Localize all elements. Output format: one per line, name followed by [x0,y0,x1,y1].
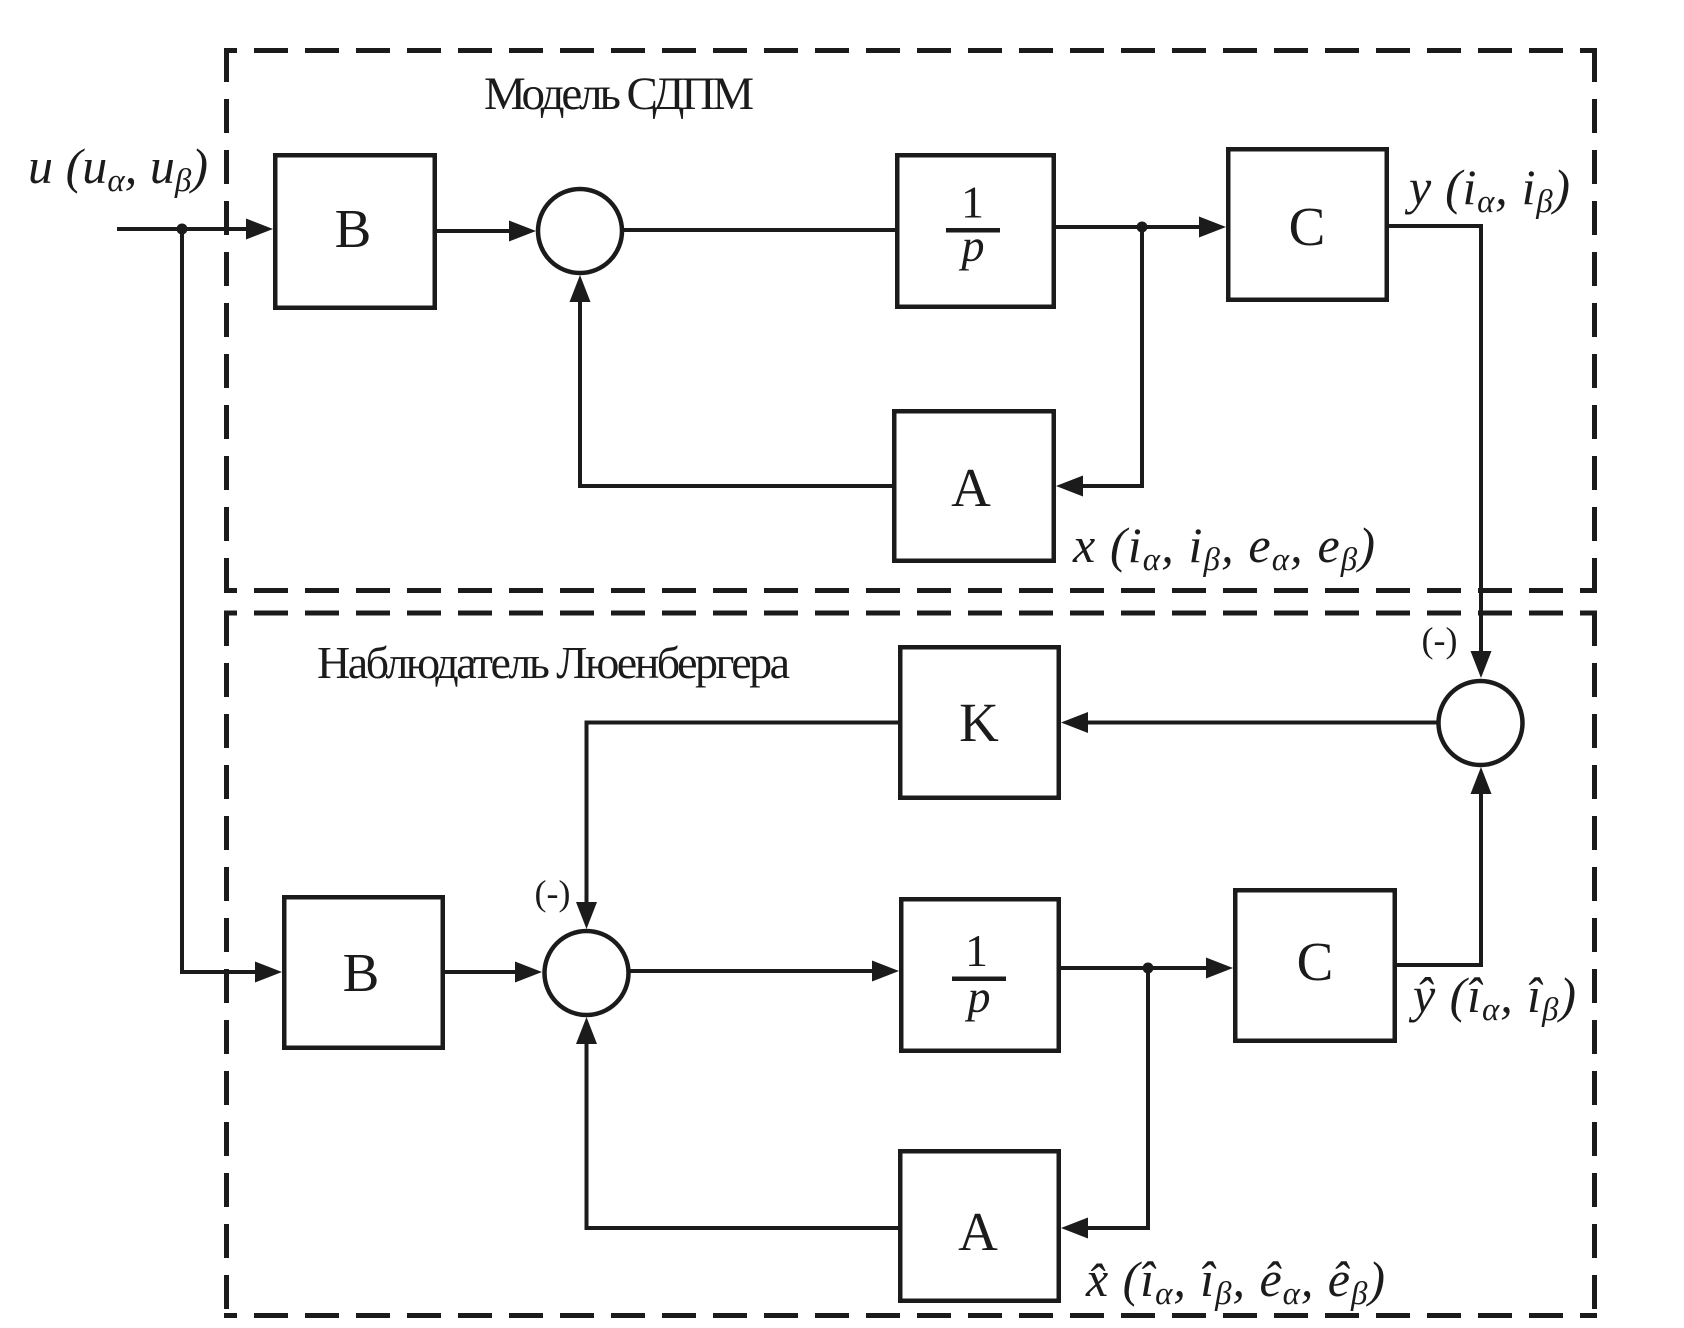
block C2 [1235,890,1395,1041]
svg-text:(-): (-) [535,873,571,913]
wire: K output to S2 top [576,723,898,930]
svg-text:(-): (-) [1422,620,1458,660]
wire: A2 output to S2 bottom [576,1017,898,1228]
wire: C2 output up to S3 bottom [1397,767,1492,965]
node: state x junction [1137,222,1148,233]
svg-text:K: K [959,692,999,753]
svg-text:A: A [951,457,991,518]
block C1 [1228,149,1387,300]
summing junction S1 [538,189,622,273]
svg-text:C: C [1289,196,1326,257]
wire: P2 to C2 [1061,958,1233,979]
wire: S3 to K [1061,712,1439,733]
node: input branch junction [177,224,188,235]
svg-text:A: A [958,1201,998,1262]
node: state x-hat junction [1143,963,1154,974]
svg-text:1: 1 [965,925,988,976]
wire: input branch horizontal into B2 [182,962,282,983]
svg-text:B: B [335,198,372,259]
svg-text:Модель СДПМ: Модель СДПМ [484,68,754,120]
wire: node x down and into A1 [1056,227,1142,497]
wire: B2 to summing junction S2 [445,962,542,983]
wire: A1 output to S1 bottom [570,275,893,486]
svg-text:C: C [1297,931,1334,992]
svg-text:p: p [959,220,985,271]
svg-text:x (iα, iβ, eα, eβ): x (iα, iβ, eα, eβ) [1072,517,1375,578]
dashed box: Модель СДПМ [224,48,1597,591]
block P1: integrator 1/p [897,155,1054,307]
wire: input horizontal into B1 [117,219,273,240]
block B1 [275,155,435,308]
wire: S2 to 1/p block P2 [629,961,900,982]
block K [900,647,1059,798]
svg-text:Наблюдатель Люенбергера: Наблюдатель Люенбергера [317,637,790,688]
svg-text:B: B [343,942,380,1003]
block A2 [900,1151,1059,1301]
summing junction S2 [545,931,629,1015]
wire: input branch vertical down [180,229,184,974]
block A1 [894,411,1054,561]
wire: S1 to 1/p block P1 [622,228,895,232]
block P2: integrator 1/p [901,899,1059,1051]
svg-text:p: p [965,971,991,1022]
summing junction S3 [1439,681,1523,765]
dashed box: Наблюдатель Люенбергера [224,612,1597,1318]
wire: B1 to summing junction S1 [437,221,536,242]
svg-text:x̂ (îα, îβ, êα, êβ): x̂ (îα, îβ, êα, êβ) [1085,1251,1385,1312]
wire: P1 to C1 [1056,217,1226,238]
wire: C1 output down to summing junction S3 [1389,226,1492,678]
wire: node x-hat down into A2 [1061,968,1148,1239]
block B2 [284,897,443,1048]
